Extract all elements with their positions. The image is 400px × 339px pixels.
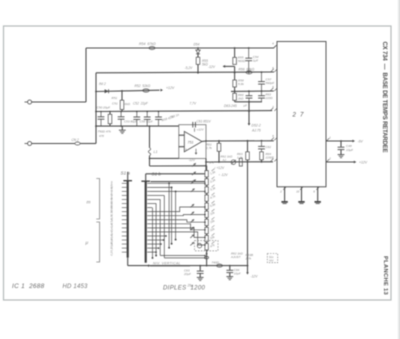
- wire S1b route 12: [151, 228, 205, 238]
- svg-text:15k: 15k: [209, 218, 215, 224]
- svg-text:CN 2: CN 2: [72, 138, 79, 142]
- svg-text:6: 6: [272, 66, 274, 70]
- wire y90.5 from node column: [96, 90, 160, 91]
- wire y162 to Z7: [206, 161, 273, 163]
- svg-text:+12V: +12V: [359, 161, 368, 165]
- switch S1a bar: [123, 180, 132, 182]
- resistor RT1 in divider column: [205, 171, 208, 177]
- pin 3 tick on Z7 left edge: [274, 108, 277, 111]
- wire S1b stub row 14: [151, 235, 167, 237]
- capacitor C48 to ground: [340, 141, 342, 147]
- pin 4 tick on Z7 left edge: [274, 45, 277, 48]
- svg-text:2: 2: [279, 189, 282, 193]
- Z7 bottom pin 2: [284, 187, 286, 201]
- wire L1 to feedback box bottom: [149, 156, 151, 166]
- capacitor C53: [136, 112, 138, 118]
- wire S1a top stub: [127, 172, 129, 181]
- resistor RT10 in divider column: [205, 244, 208, 250]
- node bus2 left: [95, 125, 97, 127]
- svg-text:750Ω 47k: 750Ω 47k: [98, 130, 112, 134]
- Z7 bottom pin 10: [301, 187, 303, 201]
- svg-text:C52 22μF: C52 22μF: [133, 102, 149, 106]
- resistor R58: [234, 73, 236, 80]
- wire y173.8 to R column: [146, 173, 205, 175]
- svg-text:C50 20μF: C50 20μF: [97, 106, 112, 110]
- capacitor C59: [248, 91, 250, 96]
- wire S1b route 5: [151, 199, 161, 201]
- svg-text:10μF: 10μF: [234, 271, 241, 275]
- capacitor C58b: [261, 91, 263, 96]
- svg-text:CX 734 — BASE DE TEMPS RETAR: CX 734 — BASE DE TEMPS RETARDEE: [381, 42, 387, 153]
- wire column top: [206, 166, 208, 171]
- node top bus R55: [234, 47, 236, 49]
- svg-text:6kΩ: 6kΩ: [125, 102, 131, 106]
- op-amp supply mark below: [195, 149, 197, 154]
- svg-text:D52-2: D52-2: [252, 124, 261, 128]
- svg-text:‹ +12V: ‹ +12V: [215, 166, 225, 170]
- switch S1b bar: [141, 180, 150, 182]
- wire S1b route 3 (full to column): [151, 190, 205, 192]
- wire op-amp output to Z7 y140.8: [202, 140, 206, 142]
- svg-text:C51: C51: [112, 102, 118, 106]
- svg-text:S1 a: S1 a: [121, 170, 131, 175]
- wire x247.5 down to -12V: [247, 162, 249, 266]
- svg-text:3: 3: [272, 105, 274, 109]
- arrow +12V on y90: [160, 89, 163, 92]
- node bus1 left: [95, 111, 97, 113]
- wire y166 trimmer feed: [150, 165, 207, 167]
- pin 2 tick on Z7 left edge: [274, 159, 277, 162]
- resistor RT6 in divider column: [205, 211, 208, 217]
- node bus72/R57: [234, 72, 236, 74]
- svg-text:20μF: 20μF: [183, 272, 191, 276]
- capacitor C63 to ground: [199, 265, 201, 267]
- wire from CN2 to node column: [80, 143, 96, 145]
- svg-text:-6V: -6V: [358, 140, 364, 144]
- wire S1b route 8: [151, 207, 205, 212]
- svg-text:-5,2V: -5,2V: [185, 66, 194, 70]
- svg-text:6,8k: 6,8k: [209, 202, 216, 208]
- wire D54 branch to bus y72.8: [197, 64, 199, 72]
- svg-text:751: 751: [188, 140, 194, 144]
- svg-text:33k: 33k: [209, 235, 215, 241]
- svg-text:2,7k: 2,7k: [205, 146, 212, 150]
- svg-text:5: 5: [272, 85, 274, 89]
- resistor R50: [108, 114, 112, 123]
- svg-text:+12V: +12V: [197, 128, 205, 132]
- svg-text:2: 2: [328, 157, 331, 161]
- resistor RT9 in divider column: [205, 235, 208, 241]
- svg-text:μ: μ: [85, 241, 89, 246]
- wire bus y72.8: [96, 71, 274, 74]
- svg-text:2kΩ: 2kΩ: [237, 97, 244, 101]
- svg-text:1,5k: 1,5k: [209, 170, 216, 176]
- svg-text:10μF: 10μF: [346, 148, 354, 152]
- op-amp U1 triangle: [184, 131, 202, 151]
- svg-text:5,6k: 5,6k: [238, 82, 244, 86]
- input terminal J2: [25, 143, 28, 145]
- pin 9 tick on Z7 left edge: [274, 137, 277, 140]
- svg-text:R51: R51: [112, 96, 118, 100]
- resistor RT2 in divider column: [205, 179, 208, 185]
- node top bus / D54: [197, 47, 199, 49]
- op-amp output node: [205, 140, 207, 142]
- Z7 bottom pin 6: [317, 187, 319, 201]
- wire top bus y48: [86, 47, 274, 49]
- svg-text:R54 67kΩ: R54 67kΩ: [139, 42, 156, 46]
- wire bottom rail y265.6: [128, 265, 248, 267]
- capacitor C54: [248, 47, 250, 49]
- wire S1b stub row 18: [151, 251, 157, 253]
- resistor R54 oval body on top bus: [149, 47, 155, 50]
- connector CN2 on J2 wire: [32, 143, 75, 145]
- wire S1b stub row 15: [151, 239, 164, 241]
- resistor RT3 in divider column: [205, 187, 208, 193]
- svg-text:‹ -12V: ‹ -12V: [219, 173, 229, 177]
- wire S1b route 11: [151, 224, 205, 230]
- capacitor C60 on feedback top: [192, 122, 194, 128]
- switch S1b contact stubs: [147, 182, 150, 184]
- svg-text:50μs: 50μs: [110, 242, 114, 249]
- svg-text:-12V: -12V: [251, 275, 259, 279]
- pin 6 tick on Z7 left edge: [274, 69, 277, 72]
- svg-text:478: 478: [99, 134, 104, 138]
- svg-text:AJ.: AJ.: [222, 158, 227, 162]
- svg-text:1μs: 1μs: [110, 223, 114, 228]
- svg-text:2,7k: 2,7k: [245, 257, 252, 261]
- svg-text:10k: 10k: [209, 210, 215, 216]
- svg-text:560pF: 560pF: [266, 81, 276, 85]
- svg-text:1: 1: [329, 136, 331, 140]
- border frame of drawing sheet: [4, 26, 392, 300]
- resistor RT5 in divider column: [205, 203, 208, 209]
- svg-text:L1: L1: [154, 150, 158, 154]
- svg-text:-12V: -12V: [208, 65, 216, 69]
- op-amp input wires: [179, 134, 185, 136]
- wire S1b top to y173.8: [145, 174, 147, 181]
- wire bus2 y126.1: [96, 125, 179, 127]
- svg-text:6: 6: [313, 189, 315, 193]
- svg-text:HD 1453: HD 1453: [63, 284, 89, 290]
- capacitor C64 to ground: [229, 265, 231, 267]
- test point a D52-2: [248, 110, 250, 112]
- svg-text:10: 10: [296, 189, 299, 193]
- wire S1b route 10: [151, 220, 205, 222]
- capacitor C56: [146, 112, 148, 118]
- wire S1b route 1 drop: [168, 183, 170, 247]
- capacitor C62 and resistor R64 on x261.5: [261, 140, 263, 142]
- resistor R56 oval body: [246, 71, 252, 74]
- capacitor C51: [120, 112, 122, 117]
- svg-text:2 7: 2 7: [292, 112, 305, 119]
- node D51/R51: [121, 90, 123, 92]
- wire S1b route 4: [151, 194, 165, 196]
- arrow -12V from R55: [234, 66, 236, 72]
- node y162 feedback: [205, 161, 207, 163]
- resistor RT4 in divider column: [205, 195, 208, 201]
- svg-text:C58 1n: C58 1n: [169, 113, 180, 120]
- resistor R65 small box on y162: [239, 158, 242, 166]
- svg-text:INI 2: INI 2: [99, 82, 106, 86]
- svg-text:1μF: 1μF: [253, 59, 259, 63]
- wire S1b stub row 16: [151, 243, 162, 245]
- wire column bottom to rail: [206, 251, 208, 266]
- svg-text:0,1: 0,1: [110, 247, 114, 251]
- svg-text:740Ω: 740Ω: [212, 261, 220, 265]
- resistor R55a below D54: [196, 57, 200, 64]
- svg-text:R52 52kΩ: R52 52kΩ: [135, 84, 151, 88]
- capacitor C50: [100, 112, 102, 117]
- wire S1b route 9: [151, 215, 205, 216]
- inductor L1 below bus2: [149, 126, 151, 148]
- resistor R52 oval body: [143, 89, 149, 92]
- capacitor C57b: [158, 112, 160, 118]
- pin 5 tick on Z7 left edge: [274, 88, 277, 91]
- switch S1a contact stubs: [122, 182, 127, 184]
- wire y181.6 to R column: [151, 181, 205, 183]
- svg-text:C53 80μF: C53 80μF: [124, 120, 137, 124]
- wire S1b route 13: [151, 232, 205, 245]
- wire y101.8: [235, 101, 262, 103]
- node x96 y91: [95, 91, 97, 93]
- svg-text:NIV.: NIV.: [269, 258, 274, 262]
- wire S1b route 6: [151, 203, 157, 205]
- capacitor C57: [261, 71, 263, 73]
- trimmer R62: [231, 160, 236, 165]
- svg-text:D54: D54: [194, 43, 200, 47]
- svg-text:7,7V: 7,7V: [190, 101, 197, 105]
- resistor R55 560: [234, 48, 236, 57]
- block Z7 outline: [277, 42, 326, 187]
- Z7 right pin 1 wire -6V: [326, 138, 329, 141]
- wire bus1 y111.5: [96, 110, 272, 113]
- svg-text:μF: μF: [243, 104, 248, 108]
- resistor R63 on x247.5: [247, 140, 249, 142]
- ground below bus2 at C51: [121, 126, 123, 130]
- svg-text:4,7k: 4,7k: [209, 194, 216, 200]
- svg-text:C56 40μF: C56 40μF: [140, 120, 153, 124]
- bracket ms group: [96, 179, 99, 220]
- bracket us group: [96, 222, 99, 262]
- wire S1b route 2 drop: [171, 187, 173, 243]
- resistor R51 vertical: [121, 91, 123, 100]
- svg-text:PLANCHE 13: PLANCHE 13: [382, 256, 388, 296]
- svg-text:0,2: 0,2: [110, 251, 114, 255]
- wire S1b route 3 drop: [175, 191, 177, 239]
- node C48: [340, 140, 342, 142]
- svg-text:AJ.75: AJ.75: [251, 128, 261, 132]
- svg-text:AJUST.: AJUST.: [230, 255, 242, 259]
- svg-text:NIV. VERTICAL: NIV. VERTICAL: [153, 262, 181, 266]
- wire S1a bottom to rail: [127, 258, 129, 266]
- wire S1b route 1 (full to column): [151, 182, 205, 184]
- wire S1b stub row 17: [151, 247, 159, 249]
- svg-text:47k: 47k: [209, 243, 215, 249]
- resistor RT8 in divider column: [205, 227, 208, 233]
- svg-text:+12V: +12V: [166, 86, 175, 90]
- node bus72/R55a: [197, 72, 199, 74]
- wire S1b route 7: [151, 207, 153, 209]
- node R61 to y162: [218, 161, 220, 163]
- svg-text:52-2: 52-2: [209, 160, 215, 164]
- input terminal J1: [25, 101, 28, 103]
- svg-text:3,3k: 3,3k: [209, 186, 216, 192]
- svg-text:2: 2: [271, 155, 274, 159]
- resistor R66 oval on rail: [217, 264, 223, 267]
- feedback loop rectangle around op-amp: [179, 125, 206, 159]
- wire from J1 to top bus corner: [32, 101, 86, 103]
- wire y91.2: [231, 90, 274, 92]
- svg-text:4: 4: [272, 41, 274, 45]
- dashed box S1c: [267, 254, 277, 263]
- svg-text:560Ω: 560Ω: [238, 59, 246, 63]
- resistor R60: [233, 93, 237, 100]
- svg-text:C61 851V: C61 851V: [197, 119, 212, 123]
- Z7 right pin 2 wire +12V: [326, 159, 329, 162]
- svg-text:m: m: [87, 200, 91, 205]
- svg-text:IC 1 2688: IC 1 2688: [12, 283, 45, 290]
- dashed select box at column bottom: [195, 241, 219, 251]
- svg-text:D63-245: D63-245: [224, 104, 237, 108]
- resistor RT7 in divider column: [205, 219, 208, 225]
- svg-text:C62: C62: [266, 145, 272, 149]
- svg-text:-12V: -12V: [189, 158, 196, 162]
- wire S1b route 2: [151, 186, 172, 188]
- svg-text:DIPLES 1200: DIPLES 1200: [163, 286, 206, 292]
- svg-text:220Ω: 220Ω: [265, 96, 274, 100]
- resistor R61: [218, 140, 220, 142]
